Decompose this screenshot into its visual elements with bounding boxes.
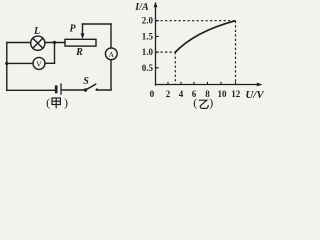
y-axis arrowhead <box>154 2 158 8</box>
curve: lamp I-U characteristic <box>175 21 236 53</box>
x-axis tick 4 <box>180 82 182 85</box>
switch S pivot dot <box>84 88 87 91</box>
battery positive plate (long) <box>60 84 62 94</box>
dashed guide line I=2.0 <box>156 20 236 22</box>
svg-text:(: ( <box>46 96 50 110</box>
x-axis arrowhead <box>257 83 263 87</box>
lamp L <box>31 36 45 50</box>
svg-text:12: 12 <box>231 89 241 99</box>
x-axis tick 12 <box>235 82 237 85</box>
wire: voltmeter branch vertical from junction <box>54 43 56 64</box>
rheostat slider P arrow <box>82 24 84 34</box>
caption (甲) <box>52 98 60 108</box>
x-axis tick 10 <box>220 82 222 85</box>
y-axis tick 1.5 <box>156 35 159 37</box>
y-axis tick 1.0 <box>156 51 159 53</box>
node B: junction voltmeter/left rail <box>5 62 8 65</box>
svg-text:I/A: I/A <box>134 2 149 13</box>
svg-text:1.0: 1.0 <box>142 47 154 57</box>
svg-text:V: V <box>36 59 42 68</box>
switch S lever <box>86 84 96 90</box>
wire: voltmeter left lead <box>7 62 33 64</box>
rheostat R body <box>65 39 96 46</box>
node A: junction lamp/rheostat/voltmeter <box>53 41 56 44</box>
svg-text:R: R <box>75 47 83 58</box>
wire: bottom rail right segment <box>97 89 112 91</box>
svg-text:P: P <box>69 23 76 34</box>
svg-text:0: 0 <box>150 89 155 99</box>
svg-text:1.5: 1.5 <box>142 31 154 41</box>
svg-text:2: 2 <box>166 89 171 99</box>
y-axis I <box>155 4 157 85</box>
y-axis tick 2.0 <box>156 20 159 22</box>
dashed guide line I=1.0 <box>156 51 175 53</box>
x-axis tick 8 <box>207 82 209 85</box>
switch S contact dot <box>96 88 98 90</box>
svg-text:U/V: U/V <box>245 89 265 101</box>
wire: ammeter down to bottom rail <box>110 60 112 90</box>
y-axis tick 0.5 <box>156 67 159 69</box>
caption 乙 glyph <box>199 100 208 108</box>
wire: top rail from left corner to lamp <box>7 42 31 44</box>
svg-text:2.0: 2.0 <box>142 16 154 26</box>
svg-text:L: L <box>33 26 40 37</box>
svg-text:): ) <box>64 96 68 110</box>
dashed guide line U=3 <box>174 52 176 84</box>
svg-text:0.5: 0.5 <box>142 63 154 73</box>
svg-text:(: ( <box>193 96 197 110</box>
svg-text:4: 4 <box>179 89 184 99</box>
wire: right vertical down to ammeter <box>110 24 112 48</box>
x-axis U <box>156 84 259 86</box>
svg-text:): ) <box>209 96 213 110</box>
svg-text:A: A <box>108 50 114 59</box>
caption 甲 glyph box <box>52 98 60 105</box>
x-axis tick 6 <box>193 82 195 85</box>
wire: slider P to top-right corner <box>83 23 112 25</box>
wire: bottom rail battery to left corner <box>7 89 55 91</box>
wire: voltmeter branch horizontal right lead <box>45 62 55 64</box>
svg-text:S: S <box>83 76 89 87</box>
caption (乙) <box>199 100 208 108</box>
voltmeter U2 <box>33 57 45 69</box>
x-axis tick 2 <box>167 82 169 85</box>
wire: bottom rail switch to battery <box>62 89 86 91</box>
wire: left vertical rail <box>6 43 8 91</box>
wire: lamp to rheostat left terminal <box>45 42 65 44</box>
ammeter U1 <box>105 48 117 60</box>
svg-text:10: 10 <box>218 89 228 99</box>
battery negative plate (short thick) <box>55 87 58 92</box>
graph 乙 <box>156 4 259 85</box>
dashed guide line U=12 <box>235 21 237 85</box>
